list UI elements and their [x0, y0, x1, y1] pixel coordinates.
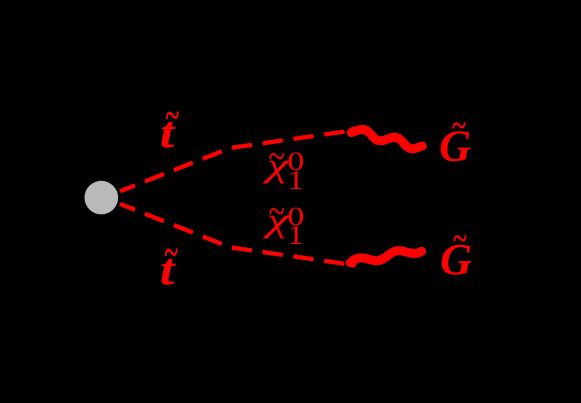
- svg-text:~: ~: [165, 232, 178, 275]
- svg-text:~: ~: [452, 108, 466, 144]
- svg-text:1: 1: [288, 219, 304, 250]
- gravitino wavy line (upper): [351, 129, 422, 148]
- wavy-line start curl (lower): [351, 262, 356, 267]
- gravitino wavy line (lower): [350, 251, 421, 263]
- stop + neutralino dashed line (lower): t~ then chi10: [120, 204, 345, 264]
- svg-text:~: ~: [269, 189, 285, 233]
- svg-text:~: ~: [453, 221, 467, 257]
- wavy-line start curl (upper): [351, 128, 356, 133]
- production vertex blob: [85, 181, 119, 215]
- stop + neutralino dashed line (upper): t~ then chi10: [120, 132, 345, 192]
- svg-text:~: ~: [166, 95, 179, 138]
- svg-text:1: 1: [288, 164, 304, 195]
- svg-text:~: ~: [269, 134, 285, 178]
